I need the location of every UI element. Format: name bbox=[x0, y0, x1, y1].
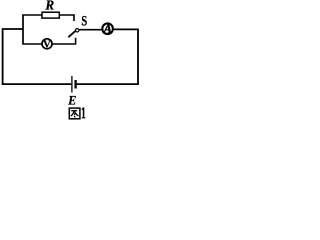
svg-text:S: S bbox=[81, 14, 87, 30]
wire: ammeter to top-right corner and down right side bbox=[114, 29, 138, 84]
wire: voltmeter branch from bracket to voltmeter bbox=[22, 43, 42, 45]
caption glyph 图 (drawn) bbox=[69, 108, 80, 119]
ammeter A circle bbox=[102, 23, 113, 34]
battery short thick plate bbox=[74, 80, 76, 89]
switch S blade bbox=[68, 31, 76, 38]
wire: top branch from bracket to resistor bbox=[22, 14, 42, 16]
voltmeter V circle bbox=[42, 39, 52, 49]
wire: bottom right from corner to battery bbox=[77, 83, 139, 85]
svg-text:E: E bbox=[67, 93, 76, 107]
switch S pivot circle bbox=[76, 29, 79, 32]
resistor R bbox=[42, 12, 59, 18]
svg-text:R: R bbox=[44, 0, 54, 13]
wire: bottom left from battery to corner, up left side, and into bracket middle bbox=[3, 29, 72, 84]
wire: resistor to upper switch contact (corner down) bbox=[59, 15, 74, 21]
svg-text:V: V bbox=[43, 40, 51, 51]
wire: switch pivot to ammeter bbox=[79, 29, 102, 31]
wire: left bracket vertical (parallel section) bbox=[22, 15, 24, 44]
caption digit 1 bbox=[82, 107, 86, 118]
svg-text:A: A bbox=[103, 22, 112, 36]
battery long thin plate bbox=[71, 76, 73, 93]
wire: voltmeter to lower switch contact (corner up) bbox=[52, 38, 76, 44]
